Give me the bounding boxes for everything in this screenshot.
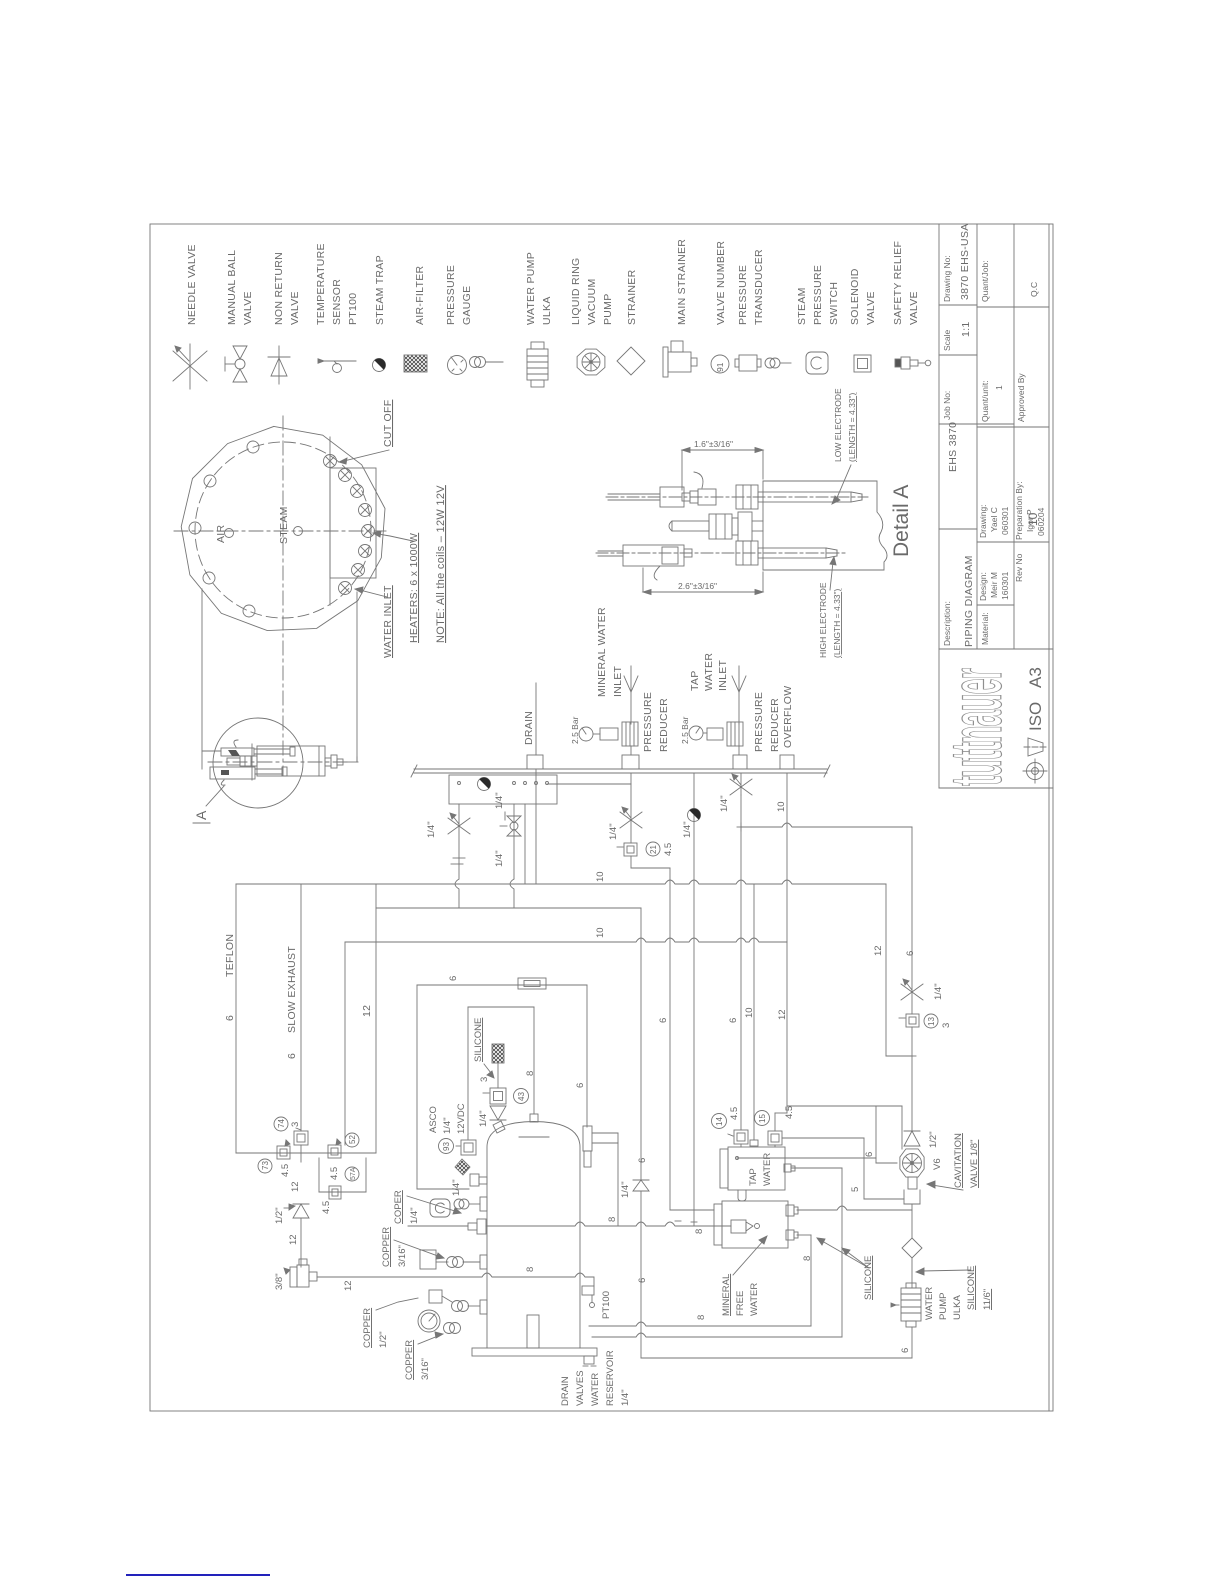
svg-text:6: 6 [575, 1083, 586, 1088]
svg-text:160301: 160301 [1000, 571, 1010, 600]
check valve 1/2 [904, 1131, 939, 1148]
svg-text:TRANSDUCER: TRANSDUCER [753, 249, 765, 325]
tuttnauer logo [936, 668, 1017, 786]
overflow stub [780, 686, 794, 770]
svg-text:1/4": 1/4" [620, 1389, 631, 1406]
drawing frame border [150, 224, 1053, 1411]
svg-text:REDUCER: REDUCER [769, 698, 781, 752]
svg-text:DRAIN: DRAIN [560, 1376, 571, 1406]
vessel steam fitting right [583, 1126, 618, 1226]
footer link line [127, 1574, 269, 1576]
high electrode label [818, 557, 842, 658]
svg-text:6: 6 [900, 1348, 911, 1353]
svg-text:STEAM: STEAM [278, 506, 290, 544]
low electrode label [832, 388, 857, 504]
svg-text:PRESSURE: PRESSURE [445, 265, 457, 325]
svg-text:6: 6 [905, 951, 916, 956]
tank interconnect u-tube [738, 1190, 746, 1201]
legend: solenoid valve [849, 268, 877, 372]
svg-text:1/4": 1/4" [426, 821, 437, 838]
tap needle valve [719, 773, 752, 812]
svg-text:ISO: ISO [1026, 702, 1045, 731]
door bolts [189, 441, 259, 617]
svg-text:6: 6 [864, 1152, 875, 1157]
drain stub [523, 683, 543, 769]
projection line left [202, 589, 221, 769]
svg-text:SILICONE: SILICONE [966, 1266, 977, 1310]
AIR port label [215, 524, 234, 543]
svg-text:2.5 Bar: 2.5 Bar [570, 716, 580, 744]
main horizontal 942 [345, 927, 787, 942]
svg-text:WATER: WATER [590, 1373, 601, 1406]
door bolt circle (dashed) [195, 442, 371, 618]
tap feed vertical 741 / valve 14 [712, 795, 749, 1147]
svg-text:MANUAL BALL: MANUAL BALL [226, 250, 238, 325]
svg-text:ASCO: ASCO [428, 1106, 439, 1133]
dimension 1.6" [682, 439, 763, 490]
svg-text:SILICONE: SILICONE [473, 1018, 484, 1062]
svg-text:VALVE: VALVE [242, 291, 254, 325]
manual ball valve on drop [494, 804, 521, 908]
svg-text:1/4": 1/4" [682, 821, 693, 838]
svg-text:WATER: WATER [924, 1287, 935, 1320]
svg-text:91: 91 [715, 362, 725, 372]
low electrode [606, 472, 868, 509]
svg-text:Scale: Scale [942, 329, 952, 351]
svg-text:15: 15 [758, 1114, 767, 1123]
WATER INLET label [355, 585, 394, 658]
svg-text:ULKA: ULKA [952, 1295, 963, 1320]
svg-text:NEEDLE VALVE: NEEDLE VALVE [186, 244, 198, 325]
svg-text:1/4": 1/4" [494, 850, 505, 867]
mineral line vertical 670 [631, 856, 714, 1210]
door centerlines [174, 416, 386, 776]
svg-text:6: 6 [224, 1015, 236, 1021]
svg-text:6: 6 [637, 1158, 648, 1163]
overflow drop [776, 773, 787, 1113]
svg-text:(LENGTH = 4.33"): (LENGTH = 4.33") [847, 392, 857, 462]
legend: pressure transducer [735, 249, 791, 371]
svg-text:FREE: FREE [735, 1291, 746, 1316]
svg-text:1/4": 1/4" [409, 1207, 420, 1224]
slow exhaust horizontal 905 [376, 907, 641, 909]
svg-text:1/4": 1/4" [494, 792, 505, 809]
svg-text:2.5 Bar: 2.5 Bar [680, 716, 690, 744]
svg-text:TAP: TAP [689, 670, 701, 691]
svg-text:4.5: 4.5 [729, 1107, 740, 1120]
tank outlet lines [696, 1138, 912, 1337]
svg-text:WATER: WATER [749, 1283, 760, 1316]
reservoir feed line 12 [317, 1273, 594, 1291]
svg-text:3: 3 [479, 1077, 490, 1082]
svg-text:Approved By: Approved By [1016, 373, 1026, 422]
svg-text:1/2": 1/2" [378, 1331, 389, 1348]
svg-text:Drawing No:: Drawing No: [942, 255, 952, 302]
float sensor [731, 1220, 760, 1233]
svg-text:VALVE: VALVE [908, 291, 920, 325]
svg-text:VALVE: VALVE [289, 291, 301, 325]
legend: water pump ULKA [525, 252, 553, 387]
HEATERS note [373, 531, 420, 643]
svg-text:8: 8 [696, 1315, 707, 1320]
svg-text:SLOW EXHAUST: SLOW EXHAUST [286, 946, 298, 1033]
strainer diamond [902, 1210, 922, 1288]
svg-text:8: 8 [525, 1071, 536, 1076]
third angle projection symbol [1023, 738, 1047, 783]
legend: non return valve [268, 252, 301, 384]
valve 43 [478, 1077, 529, 1133]
svg-text:Quant/unit:: Quant/unit: [980, 380, 990, 422]
svg-text:VALVE 1/8": VALVE 1/8" [969, 1140, 980, 1188]
svg-text:COPPER: COPPER [404, 1340, 415, 1380]
valve 13 [899, 979, 952, 1131]
svg-text:4.5: 4.5 [321, 1201, 332, 1214]
svg-text:COPPER: COPPER [362, 1308, 373, 1348]
svg-text:MINERAL WATER: MINERAL WATER [596, 607, 608, 697]
svg-text:LOW ELECTRODE: LOW ELECTRODE [833, 388, 843, 462]
svg-text:3: 3 [290, 1122, 301, 1127]
svg-text:3/8": 3/8" [274, 1273, 285, 1290]
legend: air filter [404, 265, 427, 372]
legend: strainer [617, 269, 645, 375]
svg-text:1/4": 1/4" [442, 1117, 453, 1134]
svg-text:1/2": 1/2" [274, 1207, 285, 1224]
svg-text:V6: V6 [932, 1158, 943, 1170]
svg-text:Yael C: Yael C [989, 507, 999, 532]
svg-text:1/4": 1/4" [608, 823, 619, 840]
svg-text:11/6": 11/6" [982, 1289, 993, 1310]
svg-text:SOLENOID: SOLENOID [849, 268, 861, 325]
detail pointer A [193, 786, 224, 823]
svg-text:14: 14 [715, 1117, 724, 1126]
valve group box under manifold [449, 775, 631, 809]
svg-text:8: 8 [802, 1256, 813, 1261]
NOTE coils label [435, 485, 447, 643]
ULKA water pump [891, 1283, 963, 1358]
needle valve V on drain drop [426, 804, 470, 908]
svg-text:8: 8 [694, 1229, 705, 1234]
mineral needle + valve 21 [608, 773, 674, 856]
svg-text:PUMP: PUMP [938, 1293, 949, 1320]
svg-text:PRESSURE: PRESSURE [642, 692, 654, 752]
high electrode [596, 541, 845, 580]
mineral free water label [721, 1236, 767, 1316]
svg-text:93: 93 [442, 1142, 451, 1151]
title text col1 [942, 223, 975, 647]
cabinet loop 6 [417, 976, 587, 1189]
svg-text:OVERFLOW: OVERFLOW [782, 686, 794, 749]
valve 52 [328, 942, 359, 1180]
tap water inlet [689, 653, 746, 724]
svg-text:STEAM: STEAM [796, 287, 808, 325]
legend: steam trap [373, 255, 387, 371]
svg-text:SAFETY RELIEF: SAFETY RELIEF [892, 241, 904, 325]
svg-text:6: 6 [637, 1278, 648, 1283]
svg-text:REDUCER: REDUCER [658, 698, 670, 752]
svg-text:Rev No: Rev No [1014, 553, 1024, 582]
svg-text:1/4": 1/4" [719, 795, 730, 812]
svg-text:SENSOR: SENSOR [331, 279, 343, 325]
svg-text:12: 12 [777, 1009, 788, 1020]
valve 73 cross [258, 1140, 321, 1177]
valve 74 [274, 884, 308, 1145]
legend: temperature sensor PT100 [315, 243, 359, 372]
svg-text:12VDC: 12VDC [456, 1103, 467, 1134]
CUT OFF label [339, 400, 394, 464]
svg-text:12: 12 [290, 1181, 301, 1192]
slow exhaust vertical 641 [620, 908, 669, 1358]
svg-text:Meir M: Meir M [989, 572, 999, 598]
legend: steam pressure switch [796, 265, 840, 374]
detail A bracket (chamber wall) [763, 481, 887, 570]
Detail A caption [890, 485, 913, 557]
svg-text:PT100: PT100 [601, 1291, 612, 1319]
svg-text:3/16": 3/16" [397, 1245, 408, 1267]
3/8" solenoid [274, 1259, 317, 1290]
title text col2 [978, 260, 1010, 645]
pressure reducer (mineral) [570, 692, 670, 769]
svg-text:10: 10 [1026, 512, 1040, 526]
svg-text:PT100: PT100 [347, 293, 359, 325]
svg-text:4.5: 4.5 [280, 1164, 291, 1177]
svg-text:SILICONE: SILICONE [863, 1256, 874, 1300]
svg-text:A: A [193, 810, 209, 820]
pressure reducer (tap) [680, 692, 781, 769]
legend: main strainer [663, 239, 697, 377]
steam trap drop 694 [682, 773, 739, 1226]
svg-text:PRESSURE: PRESSURE [737, 265, 749, 325]
heater elements (8 crossed circles) [324, 455, 375, 595]
svg-text:RESERVOIR: RESERVOIR [605, 1350, 616, 1406]
svg-text:1/4": 1/4" [478, 1110, 489, 1127]
safety relief valve assembly [210, 740, 358, 785]
svg-text:3/16": 3/16" [420, 1358, 431, 1380]
svg-text:13: 13 [927, 1017, 936, 1026]
svg-text:AIR: AIR [215, 524, 227, 543]
svg-text:5: 5 [850, 1187, 861, 1192]
chamber door outer polygon [181, 426, 385, 630]
svg-text:6: 6 [658, 1018, 669, 1023]
tap water tank [720, 1147, 795, 1190]
svg-text:Q.C: Q.C [1029, 282, 1039, 297]
svg-text:MINERAL: MINERAL [721, 1274, 732, 1316]
svg-text:(LENGTH = 4.33"): (LENGTH = 4.33") [832, 588, 842, 658]
valve 15 drop [755, 1009, 796, 1147]
legend: valve number [711, 241, 729, 373]
svg-text:Detail A: Detail A [890, 485, 913, 557]
svg-text:Preparation By:: Preparation By: [1014, 481, 1024, 540]
title block grid [939, 224, 1053, 788]
legend: manual ball valve [225, 250, 254, 382]
svg-text:2.6"±3/16": 2.6"±3/16" [678, 581, 717, 591]
svg-text:TAP: TAP [748, 1168, 759, 1186]
svg-text:WATER: WATER [703, 653, 715, 691]
cross line to valve 13 [737, 823, 916, 1056]
svg-text:INLET: INLET [717, 659, 729, 691]
ASCO solenoid 93 [428, 1103, 487, 1196]
svg-text:Job No:: Job No: [942, 391, 952, 420]
svg-text:43: 43 [517, 1092, 526, 1101]
svg-text:6: 6 [448, 976, 459, 981]
svg-text:Drawing:: Drawing: [978, 504, 988, 538]
COPPER 3/16 solenoid [381, 1227, 487, 1269]
svg-text:STRAINER: STRAINER [626, 269, 638, 325]
heater bracket [330, 437, 376, 605]
svg-text:4.5: 4.5 [329, 1167, 340, 1180]
svg-text:12: 12 [288, 1234, 299, 1245]
cavitation label [927, 1133, 980, 1190]
svg-text:MAIN STRAINER: MAIN STRAINER [676, 239, 688, 325]
level pipe 8 to float [408, 1217, 731, 1234]
svg-text:PIPING DIAGRAM: PIPING DIAGRAM [963, 555, 975, 647]
svg-text:DRAIN: DRAIN [523, 711, 535, 745]
svg-text:8: 8 [525, 1267, 536, 1272]
svg-text:10: 10 [744, 1007, 755, 1018]
svg-text:4.5: 4.5 [663, 843, 674, 856]
svg-text:COPPER: COPPER [381, 1227, 392, 1267]
svg-text:21: 21 [649, 845, 658, 854]
svg-text:74: 74 [277, 1119, 286, 1128]
water reservoir vessel [472, 1114, 597, 1366]
svg-text:1:1: 1:1 [960, 322, 972, 338]
svg-text:1.6"±3/16": 1.6"±3/16" [694, 439, 733, 449]
svg-text:CAVITATION: CAVITATION [953, 1133, 964, 1188]
svg-text:EHS 3870: EHS 3870 [947, 422, 959, 472]
svg-text:1/4": 1/4" [933, 983, 944, 1000]
svg-text:PRESSURE: PRESSURE [812, 265, 824, 325]
svg-text:3870 EHS-USA: 3870 EHS-USA [959, 223, 971, 300]
svg-text:12: 12 [361, 1005, 373, 1017]
svg-text:PRESSURE: PRESSURE [753, 692, 765, 752]
svg-text:NON RETURN: NON RETURN [273, 252, 285, 325]
svg-text:LIQUID RING: LIQUID RING [570, 258, 582, 325]
svg-text:Quant/Job:: Quant/Job: [980, 260, 990, 302]
teflon box [224, 884, 376, 1153]
svg-text:1/4": 1/4" [451, 1179, 462, 1196]
detail circle (safety valve area) [208, 718, 348, 808]
silicone 11/6 label [916, 1266, 993, 1310]
tank top feed 754 [744, 884, 758, 1146]
COPER 1/4 switch C [393, 1190, 487, 1224]
title text col3 [1014, 282, 1046, 582]
cavitation valve V6 [900, 1149, 943, 1210]
svg-text:WATER PUMP: WATER PUMP [525, 252, 537, 325]
svg-text:AIR-FILTER: AIR-FILTER [414, 265, 426, 325]
svg-text:Material:: Material: [980, 612, 990, 645]
legend: safety relief valve [892, 241, 931, 369]
svg-text:STEAM TRAP: STEAM TRAP [374, 255, 386, 325]
svg-text:VALVES: VALVES [575, 1370, 586, 1406]
svg-text:1/2": 1/2" [928, 1131, 939, 1148]
svg-text:A3: A3 [1026, 667, 1045, 688]
svg-text:VACUUM: VACUUM [586, 278, 598, 325]
svg-text:SWITCH: SWITCH [828, 282, 840, 325]
main horizontal 884 [236, 871, 886, 884]
mineral free water tank [714, 1201, 798, 1248]
water inlet fitting on shell [356, 757, 358, 762]
svg-text:12: 12 [343, 1280, 354, 1291]
svg-text:3: 3 [941, 1023, 952, 1028]
svg-text:Design:: Design: [978, 572, 988, 601]
svg-text:ULKA: ULKA [541, 296, 553, 325]
svg-text:VALVE: VALVE [865, 291, 877, 325]
svg-text:tuttnauer: tuttnauer [936, 668, 1017, 786]
svg-text:4.5: 4.5 [784, 1106, 795, 1119]
legend: needle valve [173, 244, 207, 389]
drain valves label [560, 1350, 631, 1406]
middle gland [669, 512, 763, 541]
svg-text:VALVE NUMBER: VALVE NUMBER [715, 241, 727, 325]
svg-text:6: 6 [286, 1053, 298, 1059]
ISO A3 sheet marks [1026, 667, 1045, 731]
svg-text:GAUGE: GAUGE [461, 286, 473, 325]
svg-text:1/4": 1/4" [620, 1181, 631, 1198]
bottom return lines [589, 1322, 912, 1358]
legend: liquid ring vacuum pump [570, 258, 614, 375]
right riser 797 [787, 1106, 902, 1163]
reservoir mid pipe 8 [525, 1267, 536, 1272]
svg-text:6: 6 [728, 1018, 739, 1023]
svg-text:CUT OFF: CUT OFF [382, 400, 394, 447]
svg-text:12: 12 [873, 945, 884, 956]
svg-text:HEATERS: 6 x 1000W: HEATERS: 6 x 1000W [408, 533, 420, 643]
STEAM port label [278, 506, 303, 544]
svg-text:8: 8 [607, 1217, 618, 1222]
PT100 sensor [582, 1286, 612, 1319]
mineral water inlet [596, 607, 638, 724]
projection line right [356, 592, 358, 762]
gauge + copper 1/2 [362, 1290, 487, 1380]
svg-text:TEMPERATURE: TEMPERATURE [315, 243, 327, 325]
svg-text:10: 10 [776, 801, 787, 812]
valve 57A [319, 1158, 366, 1214]
svg-text:HIGH ELECTRODE: HIGH ELECTRODE [818, 582, 828, 658]
silicone filter branch [468, 1007, 536, 1139]
svg-text:Description:: Description: [942, 601, 952, 646]
legend: pressure gauge [445, 265, 503, 375]
check valve 1/2 left [274, 1181, 309, 1267]
svg-text:10: 10 [595, 871, 606, 882]
svg-text:73: 73 [261, 1161, 270, 1170]
svg-text:57A: 57A [350, 1167, 357, 1180]
svg-text:52: 52 [348, 1135, 357, 1144]
svg-text:NOTE: All the coils – 12W 12V: NOTE: All the coils – 12W 12V [435, 485, 447, 643]
svg-text:TEFLON: TEFLON [224, 934, 236, 977]
dimension 2.6" [643, 568, 763, 595]
plain drops [525, 769, 536, 884]
chamber manifold bar [411, 765, 830, 777]
silicone hoses label [817, 1238, 874, 1300]
svg-text:PUMP: PUMP [602, 293, 614, 325]
svg-text:COPER: COPER [393, 1190, 404, 1224]
svg-text:INLET: INLET [612, 665, 624, 697]
svg-text:10: 10 [595, 927, 606, 938]
svg-text:060301: 060301 [1000, 506, 1010, 535]
svg-text:1: 1 [994, 385, 1004, 390]
